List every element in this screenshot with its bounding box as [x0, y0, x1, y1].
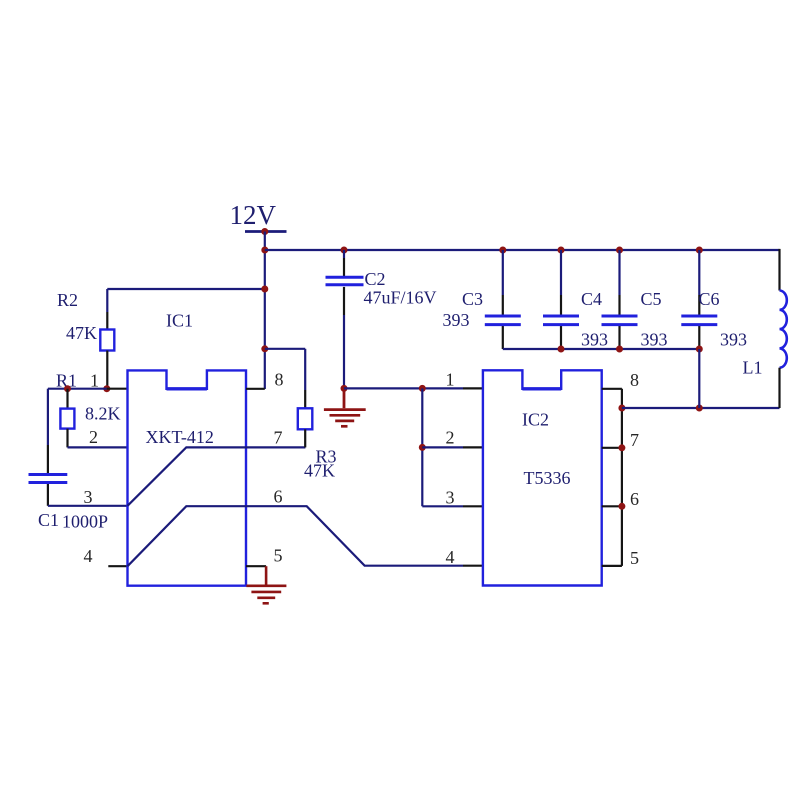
junction dot bus/pin6	[618, 503, 625, 510]
junction dot R2/pin1	[103, 385, 110, 392]
svg-text:1: 1	[90, 371, 99, 391]
wire branch vertical pin1-pin3	[421, 388, 423, 506]
wire C2 lower lead black part	[343, 287, 345, 315]
junction dot bus/pin7	[618, 444, 625, 451]
wire top supply bus	[265, 249, 780, 251]
svg-text:3: 3	[446, 488, 455, 508]
wire R1 lower lead	[66, 429, 68, 448]
junction dot pin2 branch	[419, 444, 426, 451]
svg-text:C1: C1	[38, 510, 59, 530]
wire C2 upper lead	[343, 250, 345, 258]
svg-text:R2: R2	[57, 290, 78, 310]
wire IC2 right bus vertical	[621, 389, 623, 566]
wire R2 top horizontal	[107, 288, 264, 290]
svg-text:47K: 47K	[304, 461, 335, 481]
wire to IC2 pin3	[422, 505, 463, 507]
junction dot rail/R3 branch	[261, 345, 268, 352]
capacitor C6	[681, 316, 717, 325]
junction dot C5 tap	[616, 247, 623, 254]
junction dot on 12V bar	[261, 228, 268, 235]
wire R3 upper lead	[304, 349, 306, 390]
junction dot C2/ground/IC2 pin1	[341, 385, 348, 392]
wire IC2 pin2 stub	[463, 446, 483, 448]
capacitor C5 leads	[618, 250, 620, 349]
op-amp IC1 XKT-412 body	[128, 370, 247, 585]
wire C6 bottom to L1 wire	[698, 349, 700, 408]
svg-text:6: 6	[274, 487, 283, 507]
junction dot R1/pin1	[64, 385, 71, 392]
wire IC2 pin8 stub	[602, 388, 622, 390]
wire pin4-to-pin6 internal diagonal and run to IC2 pin4	[128, 506, 464, 566]
svg-text:7: 7	[274, 428, 283, 448]
op-amp IC2 T5336 body	[483, 370, 602, 585]
wire 12V vertical rail	[264, 232, 266, 390]
junction dot C5 bottom	[616, 346, 623, 353]
wire pin4 IC1 stub	[108, 565, 127, 567]
IC2 notch bottom thick	[522, 387, 561, 390]
wire R2 lower lead	[106, 351, 108, 389]
junction dot C6 bottom branch	[696, 405, 703, 412]
capacitor C4	[543, 316, 579, 325]
wire pin2 IC1	[68, 446, 128, 448]
wire pin1 IC1 horizontal	[48, 388, 107, 390]
svg-text:C2: C2	[365, 269, 386, 289]
svg-text:C5: C5	[641, 289, 662, 309]
wire pin5 ground lead	[265, 566, 268, 586]
inductor L1	[780, 291, 787, 368]
svg-text:1: 1	[446, 370, 455, 390]
wire L1 top lead	[778, 249, 780, 291]
svg-text:8: 8	[275, 370, 284, 390]
wire IC2 pin5 stub	[602, 565, 622, 567]
wire C1 upper lead	[47, 389, 49, 445]
IC1 notch bottom thick	[167, 387, 207, 390]
wire L1 bottom lead	[778, 368, 780, 408]
svg-text:C3: C3	[462, 289, 483, 309]
capacitor C2	[326, 277, 364, 285]
wire R2 upper lead black part	[106, 312, 108, 330]
wire R3 branch horizontal	[265, 348, 305, 350]
svg-text:2: 2	[446, 428, 455, 448]
ground at IC1 pin5	[246, 586, 286, 604]
junction dot C4 bottom	[558, 346, 565, 353]
svg-text:C4: C4	[581, 289, 602, 309]
svg-text:47K: 47K	[66, 323, 97, 343]
svg-text:4: 4	[84, 546, 93, 566]
svg-text:393: 393	[443, 310, 470, 330]
wire capacitor bottom bus	[503, 348, 700, 350]
svg-text:12V: 12V	[230, 200, 277, 230]
svg-text:3: 3	[84, 487, 93, 507]
svg-text:IC2: IC2	[522, 410, 549, 430]
svg-text:1000P: 1000P	[62, 512, 108, 532]
svg-text:393: 393	[720, 330, 747, 350]
svg-text:393: 393	[641, 330, 668, 350]
svg-text:5: 5	[630, 548, 639, 568]
wire R3 lower lead	[304, 429, 306, 447]
svg-text:8.2K: 8.2K	[85, 404, 121, 424]
wire C1 lower lead	[47, 484, 49, 506]
junction dot pin1 branch	[419, 385, 426, 392]
wire pin8 IC1 stub	[246, 388, 265, 390]
junction dot rail/R2	[261, 286, 268, 293]
svg-text:6: 6	[630, 489, 639, 509]
wire IC2 pin7 stub	[602, 447, 622, 449]
wire pin1 IC1 black part	[107, 388, 128, 390]
junction dot C4 tap	[558, 247, 565, 254]
svg-text:393: 393	[581, 330, 608, 350]
svg-text:4: 4	[446, 547, 455, 567]
svg-text:XKT-412: XKT-412	[146, 427, 214, 447]
svg-text:47uF/16V: 47uF/16V	[364, 288, 437, 308]
capacitor C3	[485, 316, 521, 325]
svg-text:L1: L1	[743, 358, 763, 378]
capacitor C4 leads	[560, 250, 562, 349]
wire to IC2 pin2	[422, 446, 463, 448]
junction dot C3 tap	[499, 247, 506, 254]
junction dot C6 tap	[696, 247, 703, 254]
junction dot bus/L1 wire	[618, 405, 625, 412]
ground at C2	[324, 388, 366, 426]
wire R1 upper lead	[66, 389, 68, 409]
capacitor C3 leads	[502, 250, 504, 349]
capacitor C1	[29, 475, 68, 483]
wire IC2 pin6 stub	[602, 505, 622, 507]
capacitor C5	[602, 316, 638, 325]
resistor R3	[298, 408, 313, 429]
12V power bar	[245, 230, 287, 233]
svg-text:T5336: T5336	[524, 468, 571, 488]
svg-text:2: 2	[89, 427, 98, 447]
wire R2 upper lead	[106, 289, 108, 312]
svg-text:C6: C6	[699, 289, 720, 309]
junction dot C6 bottom	[696, 346, 703, 353]
wire IC2 pin3 stub	[463, 505, 483, 507]
svg-text:7: 7	[630, 430, 639, 450]
capacitor C6 leads	[698, 250, 700, 349]
wire bus to L1 bottom	[622, 407, 780, 409]
wire IC2 pin1 stub	[463, 387, 483, 389]
svg-text:8: 8	[630, 370, 639, 390]
resistor R1	[60, 409, 74, 429]
wire pin3-to-pin7 internal diagonal	[128, 447, 306, 505]
wire pin3 IC1	[48, 505, 128, 507]
wire ground node to IC2 pin1	[344, 387, 463, 389]
svg-text:5: 5	[274, 546, 283, 566]
svg-text:IC1: IC1	[166, 311, 193, 331]
wire IC2 pin4 stub	[463, 565, 483, 567]
junction dot rail/top bus	[261, 247, 268, 254]
junction dot C2 tap	[341, 247, 348, 254]
wire C2 lower lead	[343, 315, 345, 388]
wire pin5 IC1 stub	[246, 565, 266, 567]
wire R3 upper lead black	[304, 390, 306, 408]
resistor R2	[100, 330, 114, 351]
